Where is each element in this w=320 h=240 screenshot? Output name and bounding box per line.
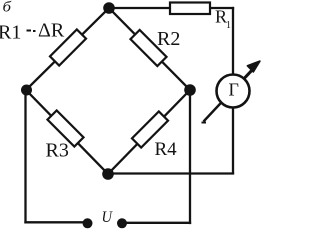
- svg-text:1: 1: [226, 20, 231, 31]
- galvanometer arrow head: [248, 61, 260, 72]
- wire bridge arm left node to bottom node: [26, 90, 108, 174]
- wire bridge arm top node to right node: [109, 8, 190, 90]
- galvanometer U1 circle: [217, 75, 250, 108]
- wire right node down: [189, 90, 191, 223]
- galvanometer arrow upper shaft: [245, 70, 254, 79]
- wire bottom right to U terminal: [122, 222, 190, 224]
- wire R1 body to top-right corner: [208, 7, 233, 9]
- node bottom junction dot: [102, 168, 114, 180]
- resistor R1-dR body (top-left arm): [50, 29, 86, 65]
- node left junction dot: [21, 84, 32, 95]
- svg-text:U: U: [101, 209, 113, 226]
- wire right vertical down to galvanometer top: [232, 8, 234, 75]
- resistor R3 body (bottom-left arm): [47, 110, 83, 146]
- wire bridge arm right node to bottom node: [108, 90, 190, 174]
- wire left U terminal to left corner: [25, 221, 87, 223]
- resistor R1 body (top horizontal): [170, 3, 210, 15]
- label +- mark: [27, 29, 32, 31]
- galvanometer arrow shaft: [203, 67, 255, 122]
- galvanometer arrow tail tick: [201, 122, 206, 124]
- wire bottom node to galvanometer branch (horizontal): [108, 172, 233, 174]
- svg-text:ΔR: ΔR: [38, 19, 65, 41]
- U source right terminal dot: [117, 218, 127, 228]
- svg-text:R1: R1: [0, 21, 21, 43]
- svg-text:R2: R2: [157, 28, 180, 50]
- wire top node to R1 body: [109, 7, 172, 9]
- svg-text:R4: R4: [154, 139, 177, 160]
- wire galvanometer bottom down to bottom-node line: [232, 107, 234, 173]
- resistor R4 body (bottom-right arm): [132, 111, 168, 147]
- wire bridge arm left node to top node: [26, 8, 109, 90]
- svg-text:R3: R3: [45, 139, 68, 161]
- node top junction dot: [103, 2, 115, 14]
- svg-text:б: б: [3, 0, 12, 15]
- resistor R2 body (top-right arm): [130, 30, 166, 66]
- U source left terminal dot: [82, 218, 92, 228]
- svg-text:Г: Г: [229, 80, 239, 100]
- node right junction dot: [184, 84, 196, 96]
- wire left vertical up to left node: [24, 90, 26, 222]
